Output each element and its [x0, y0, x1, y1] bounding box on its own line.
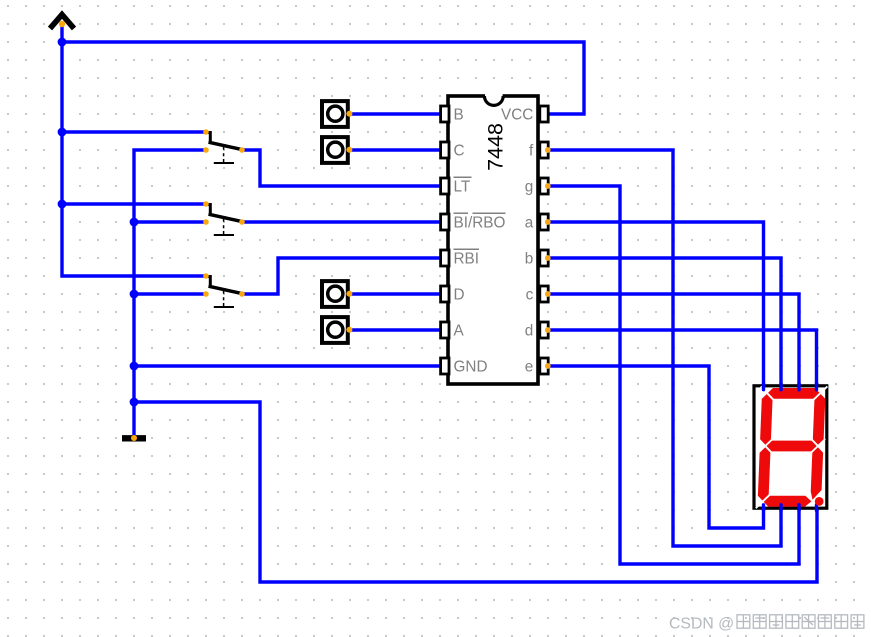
pin 11 c: [526, 286, 551, 303]
junction gnd rail/S2: [130, 218, 139, 227]
svg-text:C: C: [454, 142, 465, 159]
svg-text:LT: LT: [454, 178, 471, 195]
pin 15 f: [529, 142, 551, 159]
pin 14 g: [525, 178, 551, 195]
wire button to C pin: [350, 148, 440, 151]
svg-text:g: g: [525, 178, 534, 195]
svg-text:A: A: [454, 322, 465, 339]
wire g to display: [548, 186, 799, 564]
overline RBO: [473, 212, 506, 214]
segment separators: [756, 386, 828, 508]
wire e to display: [548, 366, 764, 528]
junction gnd rail/return: [130, 398, 139, 407]
svg-text:e: e: [525, 358, 534, 375]
pin 12 b: [525, 250, 551, 267]
wire S3 to RBI pin: [242, 258, 440, 294]
wire b to display: [548, 258, 781, 388]
wire S2 bottom to ground rail: [134, 220, 206, 223]
ground: [122, 435, 146, 441]
pushbutton input A: [322, 317, 352, 343]
wire button to D pin: [350, 292, 440, 295]
pushbutton input B: [322, 101, 352, 127]
svg-text:D: D: [454, 286, 465, 303]
wire f to display: [548, 150, 781, 546]
svg-text:RBI: RBI: [454, 250, 480, 267]
segment c: [810, 446, 823, 500]
pushbutton input D: [322, 281, 352, 307]
display pin stub wires: [764, 384, 817, 511]
wire VCC net top run: [62, 42, 584, 114]
svg-text:BI/RBO: BI/RBO: [454, 214, 506, 231]
pin 1 B: [441, 106, 464, 123]
wire c to display: [548, 294, 799, 388]
wire a to display: [548, 222, 764, 388]
pin 13 a: [525, 214, 551, 231]
overline BI: [454, 212, 469, 214]
svg-text:c: c: [526, 286, 534, 303]
junction rail/S1: [58, 128, 67, 137]
segment g: [765, 441, 818, 452]
svg-text:VCC: VCC: [501, 106, 533, 123]
junction power/top: [58, 38, 67, 47]
svg-text:d: d: [525, 322, 534, 339]
wire d to display: [548, 330, 817, 388]
pin 9 e: [525, 358, 551, 375]
svg-text:CSDN @: CSDN @: [669, 616, 734, 633]
wire rail to S1 top: [62, 130, 206, 133]
pin 6 D: [441, 286, 465, 303]
junction gnd rail/S3: [130, 290, 139, 299]
pin 5 RBI: [441, 250, 479, 267]
wire button to B pin: [350, 112, 440, 115]
pin 16 VCC: [501, 106, 548, 123]
pin 2 C: [441, 142, 465, 159]
segment e: [758, 446, 771, 501]
svg-text:GND: GND: [454, 358, 488, 375]
junction rail/S2: [58, 200, 67, 209]
svg-text:a: a: [525, 214, 534, 231]
wire ground return to display: [134, 402, 817, 582]
pin 7 A: [441, 322, 465, 339]
svg-text:f: f: [529, 142, 534, 159]
switch S2 (BI/RBO): [203, 201, 245, 235]
wire S3 bottom to ground rail: [134, 292, 206, 295]
switch S1 (LT): [203, 129, 245, 163]
decimal point: [815, 497, 824, 506]
wire button to A pin: [350, 328, 440, 331]
segment a: [767, 388, 820, 399]
switch S3 (RBI): [203, 273, 245, 307]
svg-text:b: b: [525, 250, 534, 267]
wire S1 to LT pin: [242, 150, 440, 186]
wire rail to S2 top: [62, 202, 206, 205]
overline RBI: [454, 248, 480, 250]
7-segment display body: [754, 386, 827, 508]
svg-text:B: B: [454, 106, 464, 123]
overline LT: [454, 176, 472, 178]
segment b: [813, 393, 826, 446]
wire S2 to BI/RBO pin: [242, 220, 440, 223]
segment f: [760, 393, 773, 446]
pin 4 BI/RBO: [441, 214, 506, 231]
wire ground rail from S1 bottom: [134, 150, 206, 437]
segment d: [763, 496, 812, 507]
wire ground rail to GND pin: [134, 364, 440, 367]
svg-text:7448: 7448: [484, 123, 508, 171]
pushbutton input C: [322, 137, 352, 163]
pin 8 GND: [441, 358, 488, 375]
pin 3 LT: [441, 178, 471, 195]
wire power rail to switch S3 top: [62, 24, 206, 276]
pin 10 d: [525, 322, 551, 339]
power supply arrow: [50, 15, 74, 29]
op-amp/IC U1 7448 body: [448, 93, 538, 384]
junction gnd rail/GND pin: [130, 362, 139, 371]
